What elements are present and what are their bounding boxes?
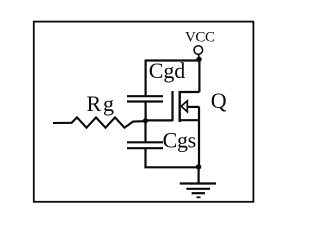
svg-text:Q: Q [211, 88, 227, 113]
wire drain vertical [198, 61, 200, 93]
VCC terminal [194, 46, 203, 58]
resistor Rg [53, 117, 145, 127]
wire gate to Cgs [144, 121, 146, 143]
capacitor Cgd [127, 96, 163, 101]
wire Cgs to bottom [146, 148, 199, 167]
svg-text:Cgs: Cgs [163, 128, 196, 153]
wire gate horizontal [146, 119, 173, 121]
wire Cgd upper vertical [145, 60, 147, 97]
wire Cgd to gate [145, 102, 147, 121]
svg-text:VCC: VCC [185, 30, 215, 46]
svg-text:Rg: Rg [87, 91, 116, 116]
svg-text:Cgd: Cgd [149, 58, 185, 83]
ground [180, 167, 216, 198]
wire source vertical [198, 107, 200, 167]
capacitor Cgs [127, 142, 163, 148]
transistor Q (N-MOSFET) [173, 91, 200, 122]
node source junction [196, 164, 201, 169]
wire drain top horizontal [146, 59, 200, 61]
node gate junction [143, 118, 148, 123]
node drain junction [196, 57, 201, 62]
border frame (decorative) [34, 22, 254, 202]
